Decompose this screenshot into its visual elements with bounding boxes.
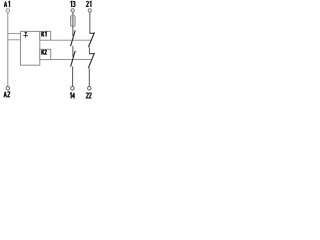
terminal label A1 [4,1,9,7]
wire NO contact to terminal 14 [72,66,74,86]
diode D1 inside coil box [24,32,28,38]
contact K1 NO blade [71,30,76,46]
wire between NC contacts [88,47,90,53]
relay K2 box [40,49,51,59]
terminal label 22 [86,93,91,98]
mechanical linkage K2 [51,59,92,61]
relay K1 label [42,32,46,37]
terminal 21 [88,9,91,12]
wire between NO contacts [72,46,74,57]
contact K1 NC stop bar [90,32,95,34]
contact K2 NC stop bar [89,53,94,55]
wire 21 to contact K1-NC [89,12,91,33]
relay K1 box [40,31,51,40]
contact K1 NC blade [88,32,94,47]
relay K2 label [42,50,47,55]
terminal label 21 [87,1,91,7]
mechanical linkage K1 [51,39,92,41]
wire A1 to A2 [7,12,9,86]
terminal label 14 [70,93,75,99]
wire stub lower to coil box [8,39,21,41]
wire stub upper to coil box [8,33,21,35]
coil box U1 [21,31,40,65]
wire 13 to fuse [72,12,74,16]
contact K2 NO blade [71,51,76,67]
wire NC contact to terminal 22 [88,68,90,86]
terminal A2 [6,86,10,90]
terminal 14 [71,87,75,91]
wire fuse to contact K1-NO [72,26,74,36]
terminal label 13 [70,1,75,7]
terminal 22 [88,87,92,91]
terminal A1 [6,9,9,12]
terminal 13 [71,9,74,12]
contact K2 NC blade [88,53,94,68]
fuse F1 [71,16,76,26]
terminal label A2 [4,92,10,98]
